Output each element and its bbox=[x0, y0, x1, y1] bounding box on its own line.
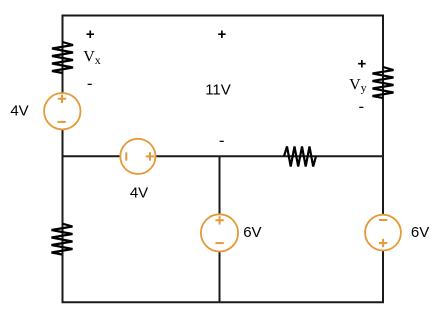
wire: left vertical bbox=[62, 15, 64, 303]
wire: top horizontal bbox=[63, 15, 384, 17]
voltage source 4V (left branch) bbox=[44, 93, 80, 129]
svg-text:11V: 11V bbox=[205, 82, 231, 99]
svg-text:Vx: Vx bbox=[83, 48, 101, 67]
wire: middle vertical bbox=[219, 156, 221, 302]
voltage source 6V (right branch) bbox=[365, 215, 401, 251]
resistor top-left (Vx) bbox=[52, 42, 73, 73]
resistor top-right (Vy) bbox=[373, 67, 394, 98]
resistor bottom-left bbox=[52, 224, 73, 255]
svg-text:4V: 4V bbox=[130, 185, 148, 202]
resistor middle-right (horizontal) bbox=[284, 147, 316, 167]
voltage source 4V (middle branch, horizontal) bbox=[120, 139, 155, 174]
wire: bottom horizontal bbox=[62, 301, 385, 303]
svg-text:Vy: Vy bbox=[349, 76, 367, 94]
svg-text:+: + bbox=[358, 55, 367, 72]
svg-text:-: - bbox=[219, 131, 225, 150]
svg-text:+: + bbox=[218, 26, 227, 43]
svg-text:+: + bbox=[86, 26, 95, 43]
wire: right vertical bbox=[382, 15, 384, 303]
svg-text:-: - bbox=[87, 74, 93, 93]
svg-text:-: - bbox=[358, 97, 364, 116]
svg-text:6V: 6V bbox=[411, 224, 429, 241]
voltage source 6V (middle vertical branch) bbox=[201, 214, 238, 251]
svg-text:4V: 4V bbox=[10, 102, 28, 119]
wire: middle horizontal bbox=[63, 155, 384, 157]
svg-text:6V: 6V bbox=[243, 224, 261, 241]
